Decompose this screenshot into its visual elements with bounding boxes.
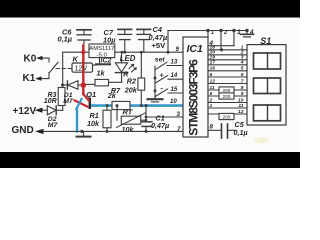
svg-text:11: 11 <box>238 103 243 109</box>
resistor R7 2k <box>107 86 130 110</box>
svg-text:200: 200 <box>223 94 231 99</box>
svg-text:4: 4 <box>240 60 244 66</box>
capacitor C1 0,47u <box>142 106 169 132</box>
svg-text:20k: 20k <box>124 85 138 94</box>
wire base blue line to pin 10 <box>91 104 184 107</box>
svg-text:200: 200 <box>223 88 231 93</box>
ground symbol below rail <box>77 131 91 136</box>
svg-text:Q1: Q1 <box>86 90 96 99</box>
svg-text:M7: M7 <box>48 122 59 129</box>
wire ground rail <box>44 130 184 132</box>
resistor 200 ohm <box>219 113 234 119</box>
resistor R2 20k <box>124 52 145 105</box>
svg-text:+: + <box>160 71 165 80</box>
svg-text:1: 1 <box>211 30 214 36</box>
svg-text:K1: K1 <box>23 73 36 84</box>
svg-text:7: 7 <box>241 78 244 84</box>
artifact smudge <box>255 137 269 143</box>
svg-text:0,1µ: 0,1µ <box>234 128 248 137</box>
relay linkage dashed <box>56 68 72 70</box>
capacitor C4 0,47u <box>137 25 168 52</box>
svg-text:6: 6 <box>210 72 213 78</box>
svg-text:12: 12 <box>210 78 216 84</box>
ground bar of IC2 <box>93 58 111 65</box>
svg-text:2k: 2k <box>107 91 117 100</box>
wire +5V <box>115 51 183 53</box>
svg-text:RT: RT <box>123 107 134 116</box>
node K0 terminal <box>24 54 50 65</box>
ground symbol top right <box>241 31 254 37</box>
display harness wires <box>208 45 247 115</box>
svg-text:4: 4 <box>249 29 254 36</box>
svg-text:200: 200 <box>223 114 231 119</box>
svg-text:S1: S1 <box>260 36 271 46</box>
button set <box>155 57 183 97</box>
svg-text:K0: K0 <box>24 54 37 65</box>
svg-text:10µ: 10µ <box>103 35 116 44</box>
IC1 STM8S003F3P6 <box>183 37 208 137</box>
svg-text:+12V: +12V <box>13 106 37 117</box>
display digit window 1 <box>254 53 281 69</box>
capacitor C6 0,1u <box>58 27 92 52</box>
+5V top rail <box>168 29 254 52</box>
svg-text:6: 6 <box>241 72 244 78</box>
svg-text:10: 10 <box>170 98 177 105</box>
svg-text:10R: 10R <box>44 98 57 105</box>
svg-text:2: 2 <box>209 97 213 103</box>
capacitor C5 0,1u VCAP <box>208 120 248 138</box>
svg-text:10k: 10k <box>87 119 100 128</box>
resistor R3 10R <box>44 88 65 111</box>
node +12V input terminal <box>13 106 48 117</box>
transistor Q1 <box>75 90 97 131</box>
resistor R 1k <box>86 69 129 86</box>
svg-text:R2: R2 <box>127 77 136 86</box>
resistor 200 ohm <box>219 87 234 93</box>
svg-text:1k: 1k <box>97 69 106 78</box>
svg-text:0,1µ: 0,1µ <box>58 35 73 44</box>
wire +12V feed up to rail <box>63 52 89 87</box>
ground symbol buttons <box>148 97 163 102</box>
relay contact K blade <box>50 62 59 72</box>
regulator IC2 AMS1117-5.0 <box>89 44 115 65</box>
svg-text:8: 8 <box>241 85 244 91</box>
resistor 200 ohm <box>219 93 234 99</box>
svg-text:K: K <box>73 55 79 64</box>
display module S1 <box>247 36 286 125</box>
svg-text:10k: 10k <box>122 125 135 134</box>
svg-text:14: 14 <box>171 72 178 79</box>
wire pin3 <box>146 116 183 118</box>
display digit window 3 <box>254 105 281 121</box>
svg-text:5: 5 <box>241 66 244 72</box>
svg-text:13: 13 <box>171 59 178 66</box>
pin 4 wire NRST <box>208 40 234 47</box>
svg-text:STM8S003F3P6: STM8S003F3P6 <box>187 59 201 136</box>
diode D2 <box>47 106 62 129</box>
svg-text:1: 1 <box>210 103 213 109</box>
letterbox top <box>0 0 300 18</box>
svg-text:15: 15 <box>171 86 178 93</box>
svg-text:10: 10 <box>238 97 244 103</box>
svg-text:12: 12 <box>238 109 244 115</box>
svg-text:9: 9 <box>241 91 244 97</box>
thermistor RT 10k <box>117 106 147 134</box>
svg-text:11: 11 <box>210 85 215 91</box>
svg-text:16: 16 <box>210 66 216 72</box>
svg-text:M7: M7 <box>63 98 74 105</box>
svg-text:IC1: IC1 <box>187 43 204 55</box>
svg-text:+5V: +5V <box>152 41 167 50</box>
svg-text:0,47µ: 0,47µ <box>151 121 169 130</box>
display digit window 2 <box>254 78 281 94</box>
red supply trace through relay <box>81 46 89 101</box>
junction dots on rails <box>80 51 169 133</box>
resistor R1 10k <box>87 106 111 132</box>
svg-text:AMS1117: AMS1117 <box>89 46 114 52</box>
letterbox bottom <box>0 152 300 168</box>
svg-text:GND: GND <box>12 125 34 136</box>
svg-text:set: set <box>155 57 166 64</box>
svg-text:17: 17 <box>210 60 216 66</box>
diode D1 flyback <box>61 81 81 106</box>
svg-text:LED: LED <box>120 54 136 63</box>
svg-text:5: 5 <box>210 91 213 97</box>
svg-text:12V: 12V <box>75 66 88 73</box>
node K1 terminal <box>23 73 50 85</box>
LED indicator <box>115 52 136 82</box>
button plus <box>154 71 184 84</box>
capacitor C7 10u <box>103 28 132 52</box>
relay coil K 12V <box>72 55 93 72</box>
button minus <box>154 84 184 97</box>
node GND terminal <box>12 125 44 136</box>
